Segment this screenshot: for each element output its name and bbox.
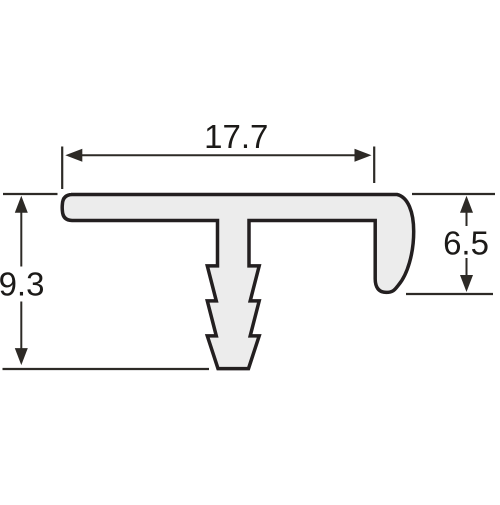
dim 9.3: shaft upper [20,209,22,267]
profile body (T-molding cross-section) [62,195,414,369]
dim 9.3: top arrowhead [15,196,28,213]
svg-text:17.7: 17.7 [204,118,268,155]
dim 9.3: top extension line [3,193,58,195]
dim 6.5: shaft lower [466,258,468,278]
dim 17.7: shaft [79,154,356,156]
svg-text:6.5: 6.5 [443,224,489,261]
dim 6.5: top extension line [412,193,495,195]
dim 6.5: bottom arrowhead [460,275,473,292]
dim 9.3: bottom arrowhead [15,348,28,365]
dim 6.5: bottom extension line [406,293,493,295]
dim 17.7: left arrowhead [65,149,82,162]
dim 9.3: shaft lower [20,302,22,353]
dim 17.7: left extension line [61,147,63,190]
dim 6.5: shaft upper [466,210,468,226]
svg-text:9.3: 9.3 [0,266,44,303]
dim 9.3: bottom extension line [3,368,210,370]
dim 17.7: right arrowhead [355,149,372,162]
dim 17.7: right extension line [373,147,375,184]
dim 6.5: top arrowhead [460,196,473,213]
